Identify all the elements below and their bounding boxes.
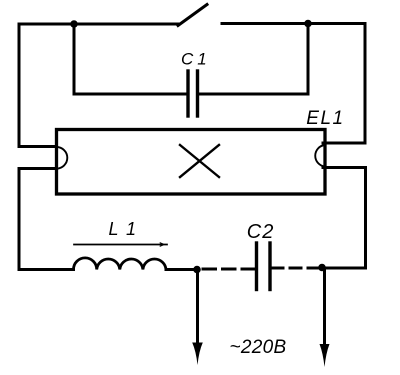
svg-text:~220B: ~220B — [230, 337, 287, 358]
svg-text:EL1: EL1 — [306, 108, 344, 129]
svg-text:L1: L1 — [109, 219, 144, 239]
svg-text:C2: C2 — [247, 221, 275, 243]
svg-text:C1: C1 — [181, 50, 211, 69]
